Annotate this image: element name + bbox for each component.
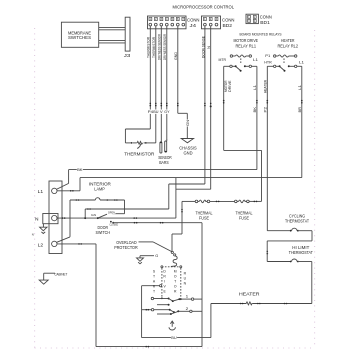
wire L2 to lamp riser [56, 200, 70, 242]
svg-text:MICROPROCESSOR CONTROL: MICROPROCESSOR CONTROL [173, 5, 235, 10]
interior lamp [70, 182, 125, 214]
svg-text:N: N [32, 232, 34, 236]
connector J3 [124, 17, 131, 58]
svg-text:BU: BU [153, 110, 159, 114]
svg-text:L1: L1 [253, 85, 257, 90]
relay RL2 contact [264, 61, 304, 72]
wire N row [57, 217, 176, 219]
relay RL1 coil [230, 55, 251, 65]
motor loop wires [142, 286, 211, 340]
terminal N ground [40, 224, 47, 234]
svg-text:HEATER: HEATER [263, 80, 267, 93]
relay RL2 coil [265, 54, 297, 64]
svg-text:OPEN: OPEN [108, 211, 115, 215]
svg-text:THERMOSTAT: THERMOSTAT [289, 250, 313, 255]
svg-text:SWITCHES: SWITCHES [68, 35, 91, 40]
thermal fuse row [182, 200, 234, 220]
svg-text:DOOR SENSE: DOOR SENSE [201, 36, 205, 58]
svg-text:HEATER: HEATER [281, 38, 295, 43]
wire L2 row and drop [57, 243, 202, 347]
wire RL2 heater output [263, 66, 273, 254]
svg-text:L1: L1 [298, 85, 302, 90]
svg-text:DRIVE: DRIVE [228, 80, 232, 92]
thermistor component [124, 141, 156, 156]
svg-text:RELAY RL1: RELAY RL1 [236, 43, 257, 48]
svg-text:HEATER: HEATER [239, 291, 260, 296]
svg-text:P2: P2 [263, 107, 267, 113]
wire thermal fuse feed down to overload [172, 201, 183, 251]
membrane switches box [61, 22, 98, 47]
svg-text:BD2: BD2 [223, 23, 233, 28]
cabinet ground [39, 273, 68, 285]
svg-text:CABINET: CABINET [54, 273, 68, 277]
centrifugal actuator arrow [169, 321, 175, 330]
wire J4 pin2 thermistor [152, 26, 159, 143]
wire door row [113, 222, 202, 347]
svg-text:FUSE: FUSE [199, 215, 209, 220]
svg-text:BU: BU [171, 336, 177, 340]
svg-text:BK: BK [253, 107, 257, 113]
svg-text:1: 1 [186, 295, 189, 299]
wire RL1 L1 contact [252, 66, 258, 169]
svg-text:DRIVE: DRIVE [163, 270, 167, 295]
svg-text:HTR: HTR [264, 61, 272, 65]
svg-text:L1: L1 [253, 58, 258, 62]
wire motor drive drop to thermal fuse [261, 150, 263, 201]
wire J4 gnd [174, 26, 190, 138]
connector CONN J4 [148, 16, 200, 29]
svg-text:L1: L1 [38, 189, 44, 194]
svg-text:RUN: RUN [183, 272, 187, 287]
svg-text:GN: GN [91, 213, 96, 217]
svg-text:L1: L1 [299, 61, 304, 65]
heater element row [211, 262, 312, 305]
svg-text:LAMP: LAMP [94, 186, 105, 191]
svg-text:GND: GND [174, 52, 178, 60]
wire BD2 pin2 neutral [176, 26, 212, 218]
svg-text:START: START [152, 270, 156, 295]
svg-text:THERMOSTAT: THERMOSTAT [285, 219, 309, 224]
door switch [91, 211, 118, 235]
svg-text:J4: J4 [190, 23, 197, 28]
cycling thermostat [267, 214, 312, 262]
svg-text:MTR: MTR [219, 58, 227, 62]
svg-text:THERMISTOR: THERMISTOR [147, 37, 151, 58]
svg-text:THERMISTOR: THERMISTOR [152, 37, 156, 58]
thermal fuse 2 [235, 200, 262, 220]
svg-text:PROTECTOR: PROTECTOR [114, 245, 138, 250]
wire membrane to J3 (ribbon pairs) [99, 27, 126, 43]
wire RL2 L1 contact [297, 66, 303, 177]
hi limit thermostat [267, 245, 313, 262]
svg-text:RELAY RL2: RELAY RL2 [278, 43, 299, 48]
page dotted border [35, 28, 315, 348]
connector CONN BD1 [246, 14, 272, 25]
svg-text:BR: BR [298, 107, 302, 113]
terminal block [35, 181, 62, 254]
connector CONN BD2 [202, 16, 235, 29]
svg-text:DRYNESS SENSOR: DRYNESS SENSOR [158, 34, 162, 60]
wire J4 pin1 thermistor [125, 26, 153, 143]
svg-text:N: N [35, 217, 39, 222]
wire RL1 MTR horizontal run to motor drop [224, 149, 262, 151]
svg-text:FUSE: FUSE [239, 215, 249, 220]
svg-text:BARS: BARS [159, 160, 169, 165]
svg-text:GND: GND [184, 151, 193, 156]
svg-text:CONN: CONN [187, 17, 200, 22]
wire RL1 MTR output [223, 66, 232, 150]
ground G near overload [137, 254, 159, 264]
svg-text:GN: GN [186, 119, 190, 126]
overload protector [114, 240, 177, 266]
relay RL1 contact [219, 58, 259, 72]
svg-text:CONN: CONN [222, 17, 235, 22]
bus B L1 to RL2 [57, 178, 302, 192]
wire BD2 pin1 door sense [169, 26, 206, 184]
svg-text:MOTOR DRIVE: MOTOR DRIVE [234, 38, 259, 43]
motor box [152, 266, 187, 300]
svg-text:DRYNESS SENSOR: DRYNESS SENSOR [163, 34, 167, 60]
svg-text:BD1: BD1 [260, 20, 270, 25]
motor switch row 2 [142, 307, 202, 315]
svg-text:N: N [207, 46, 211, 49]
svg-text:2: 2 [186, 307, 189, 311]
svg-text:THERMISTOR: THERMISTOR [124, 151, 154, 156]
wire J4 pin3 dryness sensor [158, 26, 164, 142]
wire lamp return row [85, 184, 169, 218]
svg-text:MOTOR: MOTOR [173, 270, 177, 295]
wire J4 pin4 dryness sensor [163, 26, 170, 139]
svg-text:P1: P1 [265, 54, 270, 58]
svg-text:SWITCH: SWITCH [96, 230, 111, 235]
motor switch row 1 [142, 285, 202, 306]
svg-text:L2: L2 [38, 242, 44, 247]
bus A L1 to RL1 [56, 167, 257, 189]
svg-text:J3: J3 [124, 53, 131, 58]
svg-text:BOARD MOUNTED RELAYS: BOARD MOUNTED RELAYS [240, 32, 282, 37]
sensor bars [158, 139, 172, 165]
chassis ground symbol [179, 139, 197, 156]
